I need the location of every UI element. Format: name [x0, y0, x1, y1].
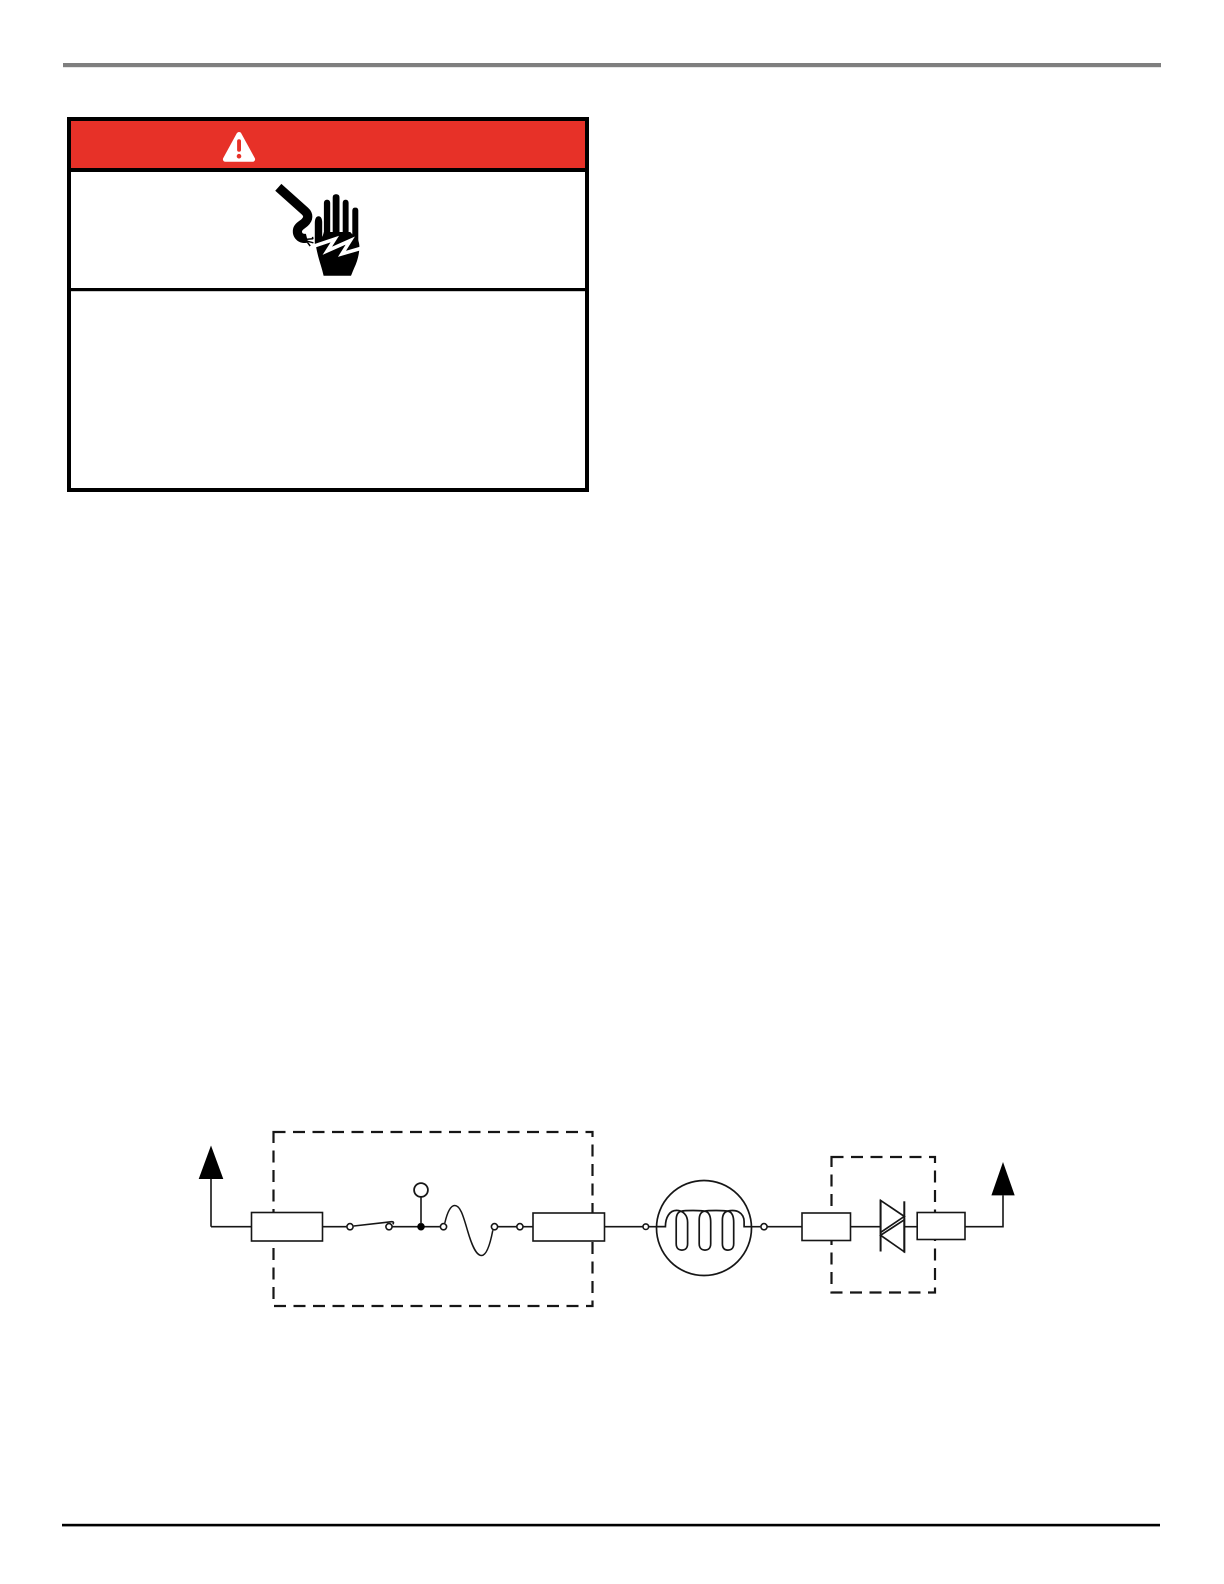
dashed enclosure (control block) — [832, 1157, 936, 1293]
motor circle M1 — [657, 1181, 752, 1276]
warning band separator — [67, 168, 589, 172]
top rule — [63, 63, 1161, 67]
warning box mid separator — [67, 288, 589, 291]
hand pinky finger — [352, 208, 358, 242]
hand index finger — [324, 200, 330, 238]
warning red band — [71, 121, 585, 168]
junction dot — [417, 1223, 425, 1231]
wire — [498, 1226, 517, 1228]
wire — [851, 1226, 881, 1228]
thermostat head circle — [414, 1183, 428, 1197]
hand thumb — [315, 216, 322, 245]
hand palm and wrist — [315, 232, 359, 276]
triac upper triangle — [881, 1200, 905, 1232]
wire — [767, 1226, 802, 1228]
triac lower triangle — [881, 1220, 905, 1252]
component box 2 — [533, 1213, 605, 1241]
wire — [904, 1226, 917, 1228]
wire — [211, 1226, 252, 1228]
switch contact A — [347, 1224, 353, 1230]
component box 3 — [802, 1213, 851, 1241]
component box 4 — [917, 1213, 965, 1240]
switch blade — [354, 1222, 394, 1226]
lightning bolt — [314, 239, 362, 254]
cable fray sparks — [307, 237, 313, 246]
electric-shock hand icon — [278, 187, 362, 275]
motor terminal L — [643, 1224, 649, 1230]
motor terminal R — [761, 1224, 767, 1230]
hand ring finger — [343, 200, 349, 238]
hand middle finger — [333, 194, 340, 238]
wire — [605, 1226, 644, 1228]
warning box frame — [69, 119, 587, 490]
supply arrow L1 — [199, 1146, 224, 1180]
wire — [752, 1226, 761, 1228]
contact E — [517, 1224, 523, 1230]
switch contact B — [386, 1224, 392, 1230]
wire — [649, 1226, 666, 1228]
supply arrow L2 — [991, 1162, 1014, 1195]
wire — [392, 1226, 440, 1228]
wire — [965, 1195, 1003, 1226]
thermal element wave — [445, 1206, 493, 1256]
dashed enclosure (timer/switch block) — [274, 1132, 593, 1306]
warning triangle — [225, 135, 252, 160]
triac right bar — [903, 1201, 905, 1252]
bottom rule — [62, 1524, 1160, 1527]
motor winding coil — [657, 1210, 752, 1250]
cable — [278, 187, 307, 238]
wire — [323, 1226, 347, 1228]
thermostat stem — [420, 1197, 422, 1224]
component box 1 — [252, 1213, 323, 1242]
contact D — [491, 1224, 497, 1230]
triac left bar — [880, 1200, 882, 1252]
wire — [523, 1226, 533, 1228]
contact C — [440, 1224, 446, 1230]
